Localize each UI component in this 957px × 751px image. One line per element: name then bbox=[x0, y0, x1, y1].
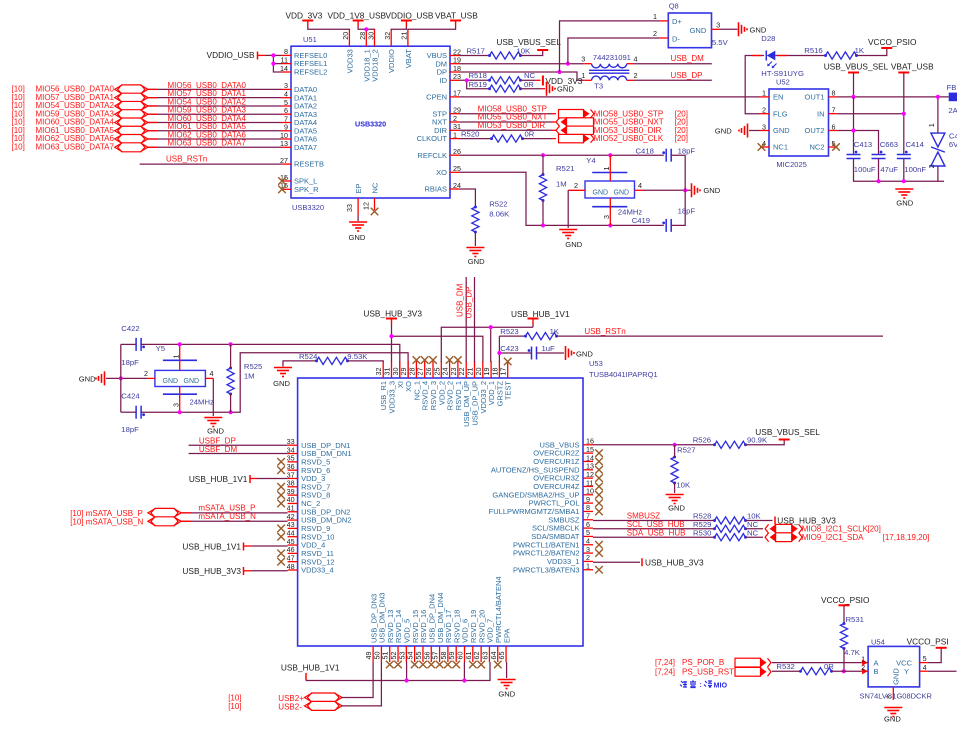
U53 pin 1 PWRCTL3/BATEN3 bbox=[583, 569, 593, 571]
U51 pin 5 DATA2 bbox=[281, 105, 291, 107]
svg-text:Y: Y bbox=[904, 667, 909, 676]
U51 pin 12 NC bbox=[374, 198, 376, 210]
wire USB_DP_UP stub bbox=[474, 277, 476, 362]
ground (EP) bbox=[349, 221, 367, 223]
wire MIO53_USB0_DIR bbox=[460, 129, 552, 131]
svg-text:USB_HUB_1V1: USB_HUB_1V1 bbox=[189, 474, 248, 484]
svg-text:XO: XO bbox=[436, 168, 447, 177]
wire D+ to DP bbox=[560, 21, 660, 72]
resistor R517 10K bbox=[490, 52, 521, 59]
U53 pin 17 TEST bbox=[507, 361, 509, 378]
capacitor C413 100uF bbox=[847, 154, 861, 156]
no-connect pin 11 bbox=[595, 483, 603, 491]
wire XO loop bbox=[460, 172, 664, 225]
svg-text:2: 2 bbox=[574, 181, 578, 190]
U53 pin 30 XI bbox=[399, 361, 401, 378]
resistor R528 10K bbox=[715, 517, 746, 524]
junction R521 bottom bbox=[541, 223, 545, 227]
ground (Y4 pin2) bbox=[559, 229, 577, 231]
junction D+ on DP bbox=[557, 70, 561, 74]
U53 pin 25 VDD_2 bbox=[440, 361, 442, 378]
svg-text:USB_HUB_1V1: USB_HUB_1V1 bbox=[511, 309, 570, 319]
wire USB_RSTn bbox=[140, 163, 281, 165]
svg-text:100uF: 100uF bbox=[854, 165, 876, 174]
ground (ID) bbox=[546, 82, 548, 96]
svg-text:GND: GND bbox=[468, 257, 485, 266]
svg-text:VCCO_PSI: VCCO_PSI bbox=[907, 636, 949, 646]
svg-text:USB_VBUS_SEL: USB_VBUS_SEL bbox=[755, 427, 820, 437]
svg-text:GND: GND bbox=[498, 689, 515, 698]
svg-text:[10] mSATA_USB_N: [10] mSATA_USB_N bbox=[70, 517, 143, 526]
wire USBF_DP bbox=[189, 444, 288, 446]
wire VDDIO_USB to pin32 bbox=[391, 27, 406, 31]
svg-text:SN74LVC1G08DCKR: SN74LVC1G08DCKR bbox=[860, 692, 933, 701]
wire mSATA_USB_P bbox=[181, 512, 287, 514]
no-connect pin 15 bbox=[595, 449, 603, 457]
no-connect pin 52 bbox=[394, 661, 402, 669]
svg-text:2: 2 bbox=[762, 106, 766, 115]
U53 pin 63 VDD_7 bbox=[488, 646, 490, 662]
junction R525 bottom bbox=[229, 410, 233, 414]
ground (Q8) bbox=[738, 22, 740, 36]
svg-text:VDD_3V3: VDD_3V3 bbox=[286, 11, 323, 21]
svg-text:GND: GND bbox=[565, 240, 582, 249]
svg-text:R517: R517 bbox=[467, 47, 485, 56]
U51 pin 10 DATA6 bbox=[281, 138, 291, 140]
svg-text:18pF: 18pF bbox=[678, 147, 696, 156]
ground (Y5 pin4) bbox=[204, 417, 222, 419]
no-connect pin 43 bbox=[277, 525, 285, 533]
no-connect pin 3 bbox=[595, 549, 603, 557]
wire R519 right bbox=[521, 88, 542, 90]
U51 pin 22 VBUS bbox=[450, 55, 460, 57]
U51 pin 7 DATA4 bbox=[281, 122, 291, 124]
resistor R522 8.06K bbox=[472, 207, 479, 232]
no-connect pin 46 bbox=[277, 550, 285, 558]
no-connect NC bbox=[371, 208, 379, 216]
svg-text:0R: 0R bbox=[524, 80, 534, 89]
svg-text:USB_HUB_3V3: USB_HUB_3V3 bbox=[645, 557, 704, 567]
no-connect NC2 bbox=[832, 143, 840, 151]
resistor R531 4.7K bbox=[843, 605, 845, 622]
svg-text:R530: R530 bbox=[693, 528, 711, 537]
svg-text:USB_VBUS_SEL: USB_VBUS_SEL bbox=[824, 61, 889, 71]
no-connect pin 62 bbox=[477, 661, 485, 669]
resistor R527 10K bbox=[671, 457, 678, 483]
svg-text:NC1: NC1 bbox=[773, 143, 788, 152]
wire XO to crystal bbox=[121, 411, 136, 413]
wire T3 to USB_DP bbox=[634, 79, 712, 81]
resistor R529 NC bbox=[715, 525, 746, 532]
wire mSATA_USB_N bbox=[181, 520, 287, 522]
no-connect pin 23 bbox=[454, 356, 462, 364]
U52 pin 3 GND bbox=[760, 130, 769, 132]
svg-text:MIO52_USB0_CLK: MIO52_USB0_CLK bbox=[594, 134, 664, 143]
U53 pin 48 VDD33_4 bbox=[288, 569, 298, 571]
svg-text:USB_HUB_1V1: USB_HUB_1V1 bbox=[182, 542, 241, 552]
port MIO52_USB0_CLK bbox=[559, 134, 584, 142]
capacitor C418 18pF bbox=[665, 149, 667, 162]
svg-text:GND: GND bbox=[703, 186, 720, 195]
svg-text:1: 1 bbox=[602, 167, 611, 171]
Y4 pin2 to GND bbox=[568, 189, 585, 191]
wire SDA bbox=[593, 536, 715, 538]
capacitor C663 47uF bbox=[872, 154, 886, 156]
svg-text:5: 5 bbox=[923, 654, 927, 663]
svg-text:CPEN: CPEN bbox=[426, 93, 447, 102]
ground (caps) bbox=[895, 188, 913, 190]
svg-text:2: 2 bbox=[653, 29, 657, 38]
ferrite bead FB1 bbox=[949, 93, 957, 102]
wire 1V1 rail bbox=[532, 325, 534, 328]
wire R530 to port bbox=[746, 536, 764, 538]
U51 pin 27 RESETB bbox=[281, 163, 291, 165]
svg-text:C423: C423 bbox=[500, 344, 518, 353]
no-connect TEST bbox=[504, 358, 512, 366]
svg-text:GND: GND bbox=[773, 126, 790, 135]
svg-text:3: 3 bbox=[885, 695, 894, 699]
U53 pin 18 GRSTZ bbox=[498, 361, 500, 378]
svg-text:TUSB4041IPAPRQ1: TUSB4041IPAPRQ1 bbox=[589, 370, 658, 379]
no-connect pin 64 bbox=[494, 661, 502, 669]
capacitor C419 18pF bbox=[665, 219, 667, 232]
svg-text:21: 21 bbox=[400, 32, 409, 40]
svg-text:USB_HUB_3V3: USB_HUB_3V3 bbox=[363, 309, 422, 319]
U51 pin 17 CPEN bbox=[450, 96, 460, 98]
U53 pin 21 USB_DP_UP bbox=[474, 361, 476, 378]
svg-text:PWRCTL3/BATEN3: PWRCTL3/BATEN3 bbox=[513, 565, 580, 574]
U53 pin 14 OVERCUR1Z bbox=[583, 460, 593, 462]
svg-text:48: 48 bbox=[287, 562, 295, 571]
U54 pin3 GND bbox=[892, 687, 894, 700]
U53 pin 58 RSVD_17 bbox=[447, 646, 449, 662]
svg-text:3: 3 bbox=[581, 55, 585, 64]
U53 pin 52 RSVD_14 bbox=[397, 646, 399, 662]
resistor R532 0R bbox=[801, 668, 832, 675]
U53 pin 12 OVERCUR3Z bbox=[583, 477, 593, 479]
capacitor C422 18pF bbox=[135, 338, 137, 351]
ground (R524) bbox=[274, 367, 292, 369]
Y4 pin1 bbox=[609, 155, 611, 181]
wire C418 to GND bbox=[671, 155, 685, 190]
wire XI to crystal bbox=[121, 343, 136, 345]
svg-text:MIO: MIO bbox=[714, 681, 728, 690]
svg-text:C422: C422 bbox=[121, 324, 139, 333]
svg-text:VDDIO: VDDIO bbox=[387, 49, 396, 73]
svg-text:USB2-: USB2- bbox=[278, 702, 302, 711]
Y4 pin4 to GND bbox=[635, 189, 644, 191]
U51 pin 30 VDD18_2 bbox=[374, 29, 376, 46]
svg-text:VBAT: VBAT bbox=[404, 49, 413, 68]
svg-text:MIO63_USB0_DATA7: MIO63_USB0_DATA7 bbox=[36, 142, 115, 151]
wire IN bbox=[838, 113, 904, 115]
svg-text:13: 13 bbox=[280, 139, 288, 148]
svg-text:GND: GND bbox=[884, 715, 901, 724]
svg-text:USB3320: USB3320 bbox=[292, 203, 324, 212]
svg-text:GND: GND bbox=[896, 198, 913, 207]
wire MIO54_USB0_DATA2 bbox=[148, 105, 281, 107]
Y5 pin3 bbox=[179, 387, 181, 413]
ground (Y5 pin2) bbox=[104, 371, 106, 385]
U51 pin 23 ID bbox=[450, 79, 460, 81]
wire MIO60_USB0_DATA4 bbox=[148, 121, 281, 123]
svg-text:R516: R516 bbox=[804, 46, 822, 55]
svg-text:GND: GND bbox=[576, 349, 593, 358]
svg-text:NC: NC bbox=[524, 71, 536, 80]
resistor R524 9.53K (USB_R1) bbox=[283, 361, 317, 367]
svg-text:R531: R531 bbox=[846, 615, 864, 624]
wire R526 to USB_VBUS_SEL bbox=[746, 440, 785, 445]
junction R527 bbox=[673, 443, 677, 447]
Y5 pin1 bbox=[179, 344, 181, 370]
svg-text:R520: R520 bbox=[461, 129, 479, 138]
svg-text:9.53K: 9.53K bbox=[347, 352, 368, 361]
svg-text:SPK_R: SPK_R bbox=[294, 185, 319, 194]
wire OUT1 rail bbox=[838, 96, 949, 98]
U51 pin 19 DM bbox=[450, 63, 460, 65]
U51 pin 29 STP bbox=[450, 113, 460, 115]
junction ID bbox=[465, 78, 469, 82]
svg-text:3: 3 bbox=[762, 122, 766, 131]
net USB_HUB_3V3 (VDD33_1) bbox=[593, 561, 640, 563]
svg-text:USB_DM: USB_DM bbox=[456, 283, 465, 317]
U53 pin 54 RSVD_15 bbox=[414, 646, 416, 662]
U53 pin 19 VDD_1 bbox=[490, 361, 492, 378]
wire MIO61_USB0_DATA5 bbox=[148, 130, 281, 132]
svg-text:C419: C419 bbox=[632, 216, 650, 225]
wire VDDIO_USB to pin8 bbox=[266, 54, 281, 56]
wire DM to T3 pin3 bbox=[460, 63, 584, 65]
wire SMBUSZ bbox=[593, 520, 715, 522]
U53 pin 41 USB_DP_DN2 bbox=[288, 511, 298, 513]
ground (Y4 pin4) bbox=[691, 183, 693, 197]
svg-text:4: 4 bbox=[210, 369, 214, 378]
svg-text:C418: C418 bbox=[636, 147, 654, 156]
U51 pin 4 DATA1 bbox=[281, 97, 291, 99]
U51 pin 15 SPK_L bbox=[281, 180, 291, 182]
U53 pin 55 RSVD_16 bbox=[422, 646, 424, 662]
no-connect pin 58 bbox=[444, 661, 452, 669]
wire Q8 GND bbox=[720, 28, 738, 30]
no-connect pin 10 bbox=[595, 491, 603, 499]
no-connect pin 44 bbox=[277, 533, 285, 541]
wire D28 to R516 bbox=[775, 55, 825, 57]
svg-text:MIO63_USB0_DATA7: MIO63_USB0_DATA7 bbox=[168, 139, 247, 148]
junction rail bbox=[876, 179, 880, 183]
U53 pin 5 SDA/SMBDAT bbox=[583, 535, 593, 537]
svg-text:12: 12 bbox=[361, 202, 370, 210]
svg-text:R526: R526 bbox=[693, 436, 711, 445]
no-connect pin 36 bbox=[277, 466, 285, 474]
port PS_POR_B bbox=[735, 658, 761, 667]
U53 pin 16 USB_VBUS bbox=[583, 444, 593, 446]
LED D28 HT-S91UYG bbox=[765, 51, 767, 61]
svg-text:18pF: 18pF bbox=[121, 358, 139, 367]
U52 pin 2 FLG bbox=[760, 113, 769, 115]
svg-text:MIO53_USB0_DIR: MIO53_USB0_DIR bbox=[478, 121, 546, 130]
wire MIO57_USB0_DATA1 bbox=[148, 97, 281, 99]
svg-text:2A: 2A bbox=[948, 106, 957, 115]
resistor R518 NC bbox=[490, 77, 521, 84]
svg-text:USB_DP: USB_DP bbox=[464, 286, 473, 318]
wire USB2+ to pin49 bbox=[341, 662, 373, 698]
U53 pin 46 RSVD_11 bbox=[288, 552, 298, 554]
U53 pin 22 USB_DM_UP bbox=[465, 361, 467, 378]
junction rail VDD_6 bbox=[462, 678, 466, 682]
svg-text:ID: ID bbox=[440, 76, 448, 85]
svg-text:1K: 1K bbox=[550, 327, 560, 336]
wire USB2- to pin50 bbox=[341, 662, 381, 706]
wire MIO62_USB0_DATA6 bbox=[148, 138, 281, 140]
wire D- to DM bbox=[568, 38, 660, 64]
svg-text:R522: R522 bbox=[489, 200, 507, 209]
svg-text:PS_USB_RSTn: PS_USB_RSTn bbox=[682, 668, 738, 677]
svg-text:R524: R524 bbox=[299, 352, 318, 361]
wire C419 to GND bbox=[671, 190, 685, 225]
junction Y5 pin3 bbox=[178, 410, 182, 414]
no-connect pin 47 bbox=[277, 558, 285, 566]
U51 pin 32 VDDIO bbox=[390, 29, 392, 46]
U51 pin 33 EP bbox=[357, 198, 359, 215]
svg-text:10K: 10K bbox=[676, 481, 691, 490]
wire VBUS to R517 bbox=[460, 55, 490, 57]
svg-text:mSATA_USB_N: mSATA_USB_N bbox=[198, 512, 256, 521]
resistor R519 0R bbox=[490, 85, 521, 92]
svg-text:[10]: [10] bbox=[12, 142, 25, 151]
U51 pin 20 VDD33 bbox=[348, 29, 350, 46]
resistor R526 90.9K bbox=[715, 441, 746, 448]
no-connect pin 1 bbox=[595, 566, 603, 574]
port MIO53_USB0_DIR bbox=[567, 126, 594, 134]
svg-text:27: 27 bbox=[280, 156, 288, 165]
U53 pin 37 VDD_3 bbox=[288, 477, 298, 479]
junction R521 top bbox=[541, 153, 545, 157]
no-connect pin 57 bbox=[436, 661, 444, 669]
svg-text:USBF_DP: USBF_DP bbox=[199, 436, 236, 445]
U53 pin 53 VDD_5 bbox=[405, 646, 407, 662]
svg-text:[10]: [10] bbox=[228, 702, 241, 711]
U51 pin 1 CLKOUT bbox=[450, 138, 460, 140]
U54 pin4 Y bbox=[920, 670, 928, 672]
U53 pin 62 RSVD_20 bbox=[480, 646, 482, 662]
wire VBAT_USB to pin21 bbox=[408, 27, 456, 31]
U52 GND pin wire bbox=[749, 130, 760, 132]
svg-text:2: 2 bbox=[927, 164, 936, 168]
svg-text:[7,24]: [7,24] bbox=[655, 658, 675, 667]
svg-text:MIC2025: MIC2025 bbox=[776, 160, 806, 169]
no-connect pin 40 bbox=[277, 500, 285, 508]
svg-text:5.5V: 5.5V bbox=[712, 38, 729, 47]
svg-text:32: 32 bbox=[383, 32, 392, 40]
junction D- on DM bbox=[566, 62, 570, 66]
svg-text:MIO9_I2C1_SDA: MIO9_I2C1_SDA bbox=[802, 533, 864, 542]
svg-text:B: B bbox=[874, 667, 879, 676]
svg-text:Y4: Y4 bbox=[586, 156, 596, 165]
wire R520 to port bbox=[523, 138, 553, 140]
junction bbox=[271, 53, 275, 57]
wire REFCLK bbox=[460, 154, 664, 156]
svg-text:[17,18,19,20]: [17,18,19,20] bbox=[883, 533, 930, 542]
port MIO62_USB0_DATA6 bbox=[118, 135, 145, 144]
svg-text:17: 17 bbox=[453, 89, 461, 98]
svg-text:1uF: 1uF bbox=[542, 344, 556, 353]
svg-text:NC2: NC2 bbox=[809, 143, 824, 152]
junction Y5 pin1 bbox=[178, 342, 182, 346]
wire MIO63_USB0_DATA7 bbox=[148, 146, 281, 148]
svg-text:GND: GND bbox=[207, 426, 224, 435]
no-connect SPK_L bbox=[278, 177, 286, 185]
wire USB_VBUS (pin16) bbox=[593, 444, 715, 446]
crystal Y4 24MHz bbox=[585, 181, 635, 198]
wire C422/C424 left link bbox=[120, 344, 122, 412]
U53 pin 50 USB_DM_DN3 bbox=[380, 646, 382, 662]
U53 pin 34 USB_DM_DN1 bbox=[288, 453, 298, 455]
svg-text:24MHz: 24MHz bbox=[190, 398, 215, 407]
junction C423 bbox=[497, 351, 501, 355]
port USB2+ bbox=[308, 693, 340, 702]
U53 pin 38 RSVD_7 bbox=[288, 486, 298, 488]
svg-text:GND: GND bbox=[557, 85, 574, 94]
resistor R530 NC bbox=[715, 534, 746, 541]
U53 pin 31 VDD33_3 bbox=[391, 361, 393, 378]
U53 pin 40 NC_2 bbox=[288, 502, 298, 504]
svg-text:GND: GND bbox=[892, 668, 901, 685]
wire R518 right bbox=[521, 79, 536, 81]
U51 pin 24 RBIAS bbox=[450, 188, 460, 190]
junction OUT1/VBUS_SEL bbox=[851, 95, 855, 99]
U51 pin 16 SPK_R bbox=[281, 188, 291, 190]
svg-text:GND: GND bbox=[614, 190, 630, 197]
port MIO9_I2C1_SDA bbox=[776, 533, 792, 542]
U53 pin 61 RSVD_19 bbox=[472, 646, 474, 662]
wire 3V3 rail bbox=[391, 325, 393, 337]
U51 pin 18 DP bbox=[450, 71, 460, 73]
U53 pin 36 RSVD_6 bbox=[288, 469, 298, 471]
port mSATA_USB_N bbox=[151, 517, 178, 526]
port USB2- bbox=[308, 701, 340, 710]
svg-text:Q8: Q8 bbox=[669, 2, 679, 11]
U53 pin 64 PWRCTL4/BATEN4 bbox=[497, 646, 499, 662]
svg-text:REFSEL2: REFSEL2 bbox=[294, 68, 327, 77]
port MIO61_USB0_DATA5 bbox=[118, 126, 145, 135]
svg-text:USB_HUB_3V3: USB_HUB_3V3 bbox=[182, 566, 241, 576]
Q8 pin1 D+ bbox=[660, 20, 669, 22]
power USB_VBUS_SEL bbox=[779, 439, 790, 441]
svg-text:VBAT_USB: VBAT_USB bbox=[891, 61, 934, 71]
svg-text:R518: R518 bbox=[469, 71, 487, 80]
wire USBF_DM bbox=[189, 453, 288, 455]
wire R528 to USB_HUB_3V3 bbox=[746, 520, 773, 522]
resistor R516 1K bbox=[826, 52, 857, 59]
svg-text:U54: U54 bbox=[871, 637, 885, 646]
U53 pin 59 RSVD_18 bbox=[455, 646, 457, 662]
svg-text:VBAT_USB: VBAT_USB bbox=[435, 11, 478, 21]
svg-text:4.7K: 4.7K bbox=[844, 648, 861, 657]
svg-text:NC: NC bbox=[747, 528, 759, 537]
wire SCL bbox=[593, 528, 715, 530]
svg-text:1: 1 bbox=[172, 355, 181, 359]
svg-text:SMBUSZ: SMBUSZ bbox=[627, 511, 660, 520]
resistor R523 1K bbox=[499, 335, 525, 337]
U53 pin 29 XO bbox=[407, 361, 409, 378]
wire OUT2 bbox=[838, 131, 879, 155]
Q8 pin3 GND bbox=[712, 28, 721, 30]
USB hub U53 TUSB4041IPAPRQ1 bbox=[298, 378, 583, 646]
junction Y4 pin3 bbox=[608, 223, 612, 227]
U51 pin 25 XO bbox=[450, 171, 460, 173]
U54 pin5 VCC bbox=[920, 662, 928, 664]
svg-text:1: 1 bbox=[653, 12, 657, 21]
